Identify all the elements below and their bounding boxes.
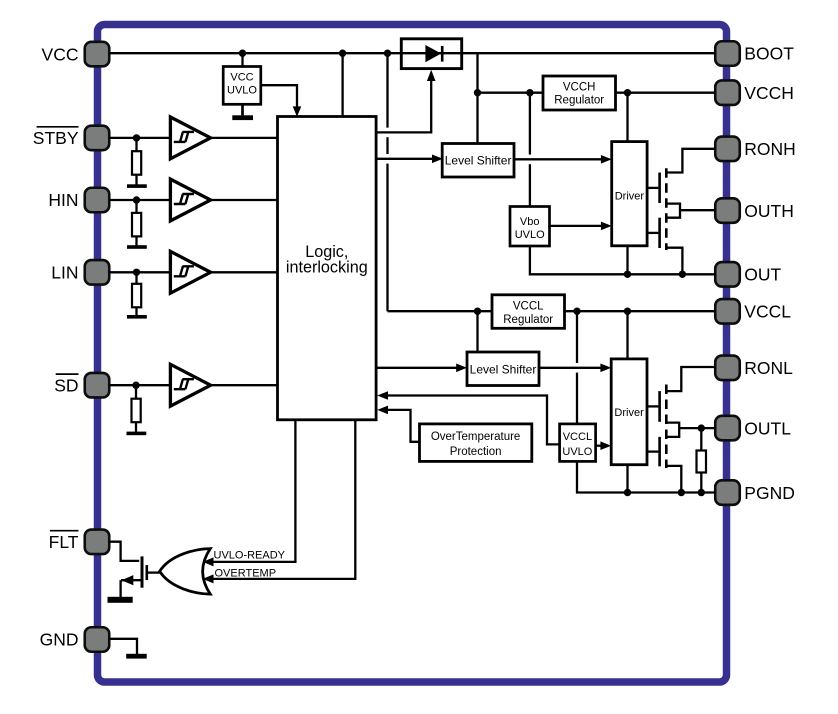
transistor Q1 high side source FET gate xyxy=(647,173,660,204)
svg-text:UVLO: UVLO xyxy=(562,446,592,458)
junction VCC rail / logic supply tap xyxy=(339,50,346,57)
junction VCCH wire / driver supply xyxy=(624,89,631,96)
wire Vbo UVLO supply tap (with crossover gap) xyxy=(529,93,531,155)
wire logic to low side level shifter xyxy=(376,367,458,369)
junction HIN pulldown xyxy=(133,196,140,203)
or-gate fault flag (faces left) xyxy=(160,549,211,595)
pin STBY (active low) xyxy=(33,126,109,150)
wire Q2 source to OUT xyxy=(667,248,682,275)
svg-text:interlocking: interlocking xyxy=(286,259,368,277)
wire VCCL UVLO status to logic xyxy=(387,396,560,445)
wire Vbo UVLO ground reference to OUT xyxy=(530,246,716,274)
block logic interlocking U1 xyxy=(278,117,377,420)
junction PGND wire / Q4 source xyxy=(678,489,685,496)
svg-text:OUTH: OUTH xyxy=(744,201,794,221)
junction VCCL input / low side level shifter supply xyxy=(474,308,481,315)
pin HIN xyxy=(48,188,109,213)
block level shifter (low side) xyxy=(467,352,539,386)
block VCCL UVLO xyxy=(560,424,596,462)
transistor Q3 low side source FET gate xyxy=(647,391,660,422)
pin VCCH xyxy=(715,80,794,105)
block level shifter (high side) xyxy=(442,144,514,178)
wire pin FLT to fault FET drain xyxy=(109,542,140,561)
svg-text:PGND: PGND xyxy=(744,483,795,503)
pin OUT xyxy=(715,262,781,287)
pin SD (active low) xyxy=(54,373,109,398)
wire logic to high side level shifter xyxy=(376,158,434,160)
resistor LIN pulldown xyxy=(132,272,141,315)
svg-text:UVLO: UVLO xyxy=(515,229,545,241)
pin FLT (active low) xyxy=(49,530,110,555)
svg-text:Level Shifter: Level Shifter xyxy=(470,362,537,376)
wire bootstrap diode to pin BOOT xyxy=(460,52,715,54)
wire VCC rail to logic block top xyxy=(341,53,343,116)
svg-text:BOOT: BOOT xyxy=(744,44,794,64)
schmitt buffer SD xyxy=(170,364,210,406)
wire VCC UVLO output to logic xyxy=(261,85,297,107)
svg-text:STBY: STBY xyxy=(33,128,79,148)
wire VCCH to high side driver top xyxy=(626,93,628,142)
svg-text:VCCL: VCCL xyxy=(563,431,592,443)
ground SD pulldown xyxy=(127,432,147,436)
svg-text:LIN: LIN xyxy=(51,263,78,283)
svg-text:UVLO: UVLO xyxy=(227,85,257,97)
wire level shifter to high side driver xyxy=(514,158,603,160)
wire low side level shifter to driver xyxy=(539,367,602,369)
wire logic to bootstrap diode drive xyxy=(376,80,431,132)
wire VCCH regulator input node xyxy=(478,92,544,94)
svg-text:UVLO-READY: UVLO-READY xyxy=(214,549,286,561)
pin RONL xyxy=(715,356,793,381)
svg-text:Driver: Driver xyxy=(615,190,645,202)
svg-text:VCCL: VCCL xyxy=(744,302,791,322)
ground VCC UVLO xyxy=(232,104,253,120)
pin VCCL xyxy=(715,299,791,324)
svg-text:Level Shifter: Level Shifter xyxy=(445,153,512,167)
junction OUTL wire / pulldown resistor xyxy=(698,424,705,431)
resistor SD pulldown xyxy=(132,385,141,432)
wire STBY buffer to logic xyxy=(212,137,278,139)
junction VCCH node / level shifter supply xyxy=(474,89,481,96)
svg-text:VCC: VCC xyxy=(42,44,79,64)
wire SD buffer to logic xyxy=(212,384,278,386)
svg-text:OUTL: OUTL xyxy=(744,418,791,438)
wire VCCL regulator input from VCC xyxy=(388,310,493,312)
junction SD pulldown xyxy=(132,382,139,389)
svg-text:FLT: FLT xyxy=(49,532,79,552)
ground fault FET source xyxy=(108,597,133,603)
wire pin RONH to source FET drain xyxy=(667,149,715,173)
svg-text:VCCL: VCCL xyxy=(513,301,544,313)
block bootstrap diode D1 xyxy=(401,39,461,69)
wire pin LIN to input buffer xyxy=(109,271,170,273)
block VCC UVLO xyxy=(223,67,261,105)
wire pin SD to input buffer xyxy=(109,384,170,386)
junction VCCL wire / low side driver supply xyxy=(624,308,631,315)
wire Q1 source / Q2 drain to pin OUTH xyxy=(667,204,715,218)
svg-text:Regulator: Regulator xyxy=(503,314,553,326)
wire VCCH regulator to pin VCCH xyxy=(616,92,716,94)
wire UVLO-READY from logic to or-gate xyxy=(203,420,296,567)
wire VCCL to low side driver top xyxy=(626,311,628,359)
svg-text:Driver: Driver xyxy=(614,407,644,419)
pin LIN xyxy=(51,260,109,285)
junction VCC rail / VCC UVLO tap xyxy=(239,50,246,57)
pin PGND xyxy=(715,480,795,505)
wire HIN buffer to logic xyxy=(212,199,278,201)
wire OVERTEMP from logic to or-gate xyxy=(203,420,356,584)
svg-text:VCC: VCC xyxy=(230,72,253,84)
junction STBY pulldown xyxy=(133,134,140,141)
resistor OUTL pulldown xyxy=(697,428,707,492)
block driver (high side) U2 xyxy=(612,142,647,246)
wire Q4 source to PGND xyxy=(667,466,681,493)
junction PGND wire / pulldown resistor xyxy=(698,489,705,496)
svg-text:RONH: RONH xyxy=(744,139,796,159)
pin OUTL xyxy=(715,416,791,441)
svg-text:HIN: HIN xyxy=(48,190,78,210)
svg-text:GND: GND xyxy=(40,630,79,650)
transistor Q4 low side sink FET gate xyxy=(647,437,660,466)
pin GND xyxy=(40,627,110,652)
junction VCCL wire / VCCL UVLO tap xyxy=(573,308,580,315)
wire Vbo UVLO to high side driver xyxy=(550,225,603,227)
wire overtemp protection status to logic xyxy=(387,410,420,442)
wire pin RONL to low side source FET drain xyxy=(667,367,715,391)
wire low side driver bottom to PGND xyxy=(626,465,628,493)
schmitt buffer LIN xyxy=(170,251,210,293)
junction VCCH node / Vbo UVLO tap xyxy=(526,89,533,96)
wire VCCL UVLO to low side driver xyxy=(596,445,602,447)
block driver (low side) U3 xyxy=(611,359,647,465)
wire VCC rail (pin VCC to bootstrap diode) xyxy=(109,52,401,54)
block overtemperature protection xyxy=(420,424,532,462)
junction VCC rail / VCCL regulator feed xyxy=(384,50,391,57)
ground HIN pulldown xyxy=(127,245,147,249)
block VCCH regulator xyxy=(543,76,616,110)
svg-text:OUT: OUT xyxy=(744,265,781,285)
pin OUTH xyxy=(715,198,794,223)
transistor Q2 high side sink FET gate xyxy=(647,218,660,248)
wire VCC rail down to VCCL regulator input (with crossover gaps) xyxy=(386,53,388,127)
wire level shifter low side supply tap xyxy=(476,311,478,352)
wire Q3 source / Q4 drain to pin OUTL xyxy=(667,423,715,437)
schmitt buffer HIN xyxy=(170,179,210,221)
resistor HIN pulldown xyxy=(132,200,141,245)
block Vbo UVLO xyxy=(510,207,550,247)
junction PGND wire / driver return xyxy=(624,489,631,496)
ground STBY pulldown xyxy=(127,184,147,188)
wire pin HIN to input buffer xyxy=(109,199,170,201)
svg-text:Vbo: Vbo xyxy=(520,216,540,228)
junction OUT wire / driver return xyxy=(624,271,631,278)
junction OUT wire / sink FET source xyxy=(679,271,686,278)
junction LIN pulldown xyxy=(133,269,140,276)
wire LIN buffer to logic xyxy=(212,271,278,273)
transistor Q5 fault open drain FET xyxy=(121,556,160,597)
svg-text:OverTemperature: OverTemperature xyxy=(431,431,520,443)
transistor Q1/Q2 shared channel (dashed) xyxy=(665,168,668,250)
svg-text:SD: SD xyxy=(54,375,78,395)
ground pin GND xyxy=(109,639,147,659)
pin BOOT xyxy=(715,41,794,66)
IC boundary frame xyxy=(98,25,727,683)
transistor Q3/Q4 shared channel (dashed) xyxy=(665,385,668,469)
wire BOOT rail down to VCCH regulator node xyxy=(476,53,478,143)
wire VCCL to VCCL UVLO (with crossover gap) xyxy=(576,311,578,424)
schmitt buffer STBY xyxy=(170,117,210,159)
wire VCCL regulator to pin VCCL xyxy=(565,310,716,312)
resistor STBY pulldown xyxy=(132,138,141,185)
svg-text:Protection: Protection xyxy=(450,446,502,458)
wire VCC rail to VCC UVLO block xyxy=(241,53,243,66)
svg-text:OVERTEMP: OVERTEMP xyxy=(215,568,277,580)
block VCCL regulator xyxy=(492,295,565,329)
svg-text:Regulator: Regulator xyxy=(554,95,604,107)
wire high side driver bottom to OUT xyxy=(626,246,628,274)
svg-text:VCCH: VCCH xyxy=(744,83,794,103)
pin RONH xyxy=(715,137,796,162)
ground LIN pulldown xyxy=(127,315,147,319)
pin VCC xyxy=(42,42,110,67)
wire VCCL UVLO bottom to PGND xyxy=(577,461,715,492)
svg-text:RONL: RONL xyxy=(744,358,793,378)
wire pin STBY to input buffer xyxy=(109,137,170,139)
svg-text:VCCH: VCCH xyxy=(563,81,596,93)
